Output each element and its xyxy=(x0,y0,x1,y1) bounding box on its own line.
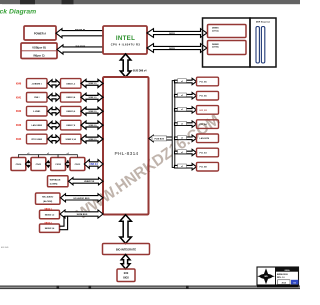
wire USB/IM to CPU xyxy=(57,45,103,54)
label SATA 1 xyxy=(44,208,52,211)
svg-text:USB PWR: USB PWR xyxy=(75,46,86,48)
bus DDR3 channel A xyxy=(147,29,207,38)
bus DMI CPU to PCH xyxy=(120,54,130,77)
svg-text:x1: x1 xyxy=(181,95,183,97)
svg-text:X044: X044 xyxy=(16,138,22,141)
svg-text:MIC AUDIO: MIC AUDIO xyxy=(42,196,53,199)
bus BIO to EXE BIOS xyxy=(121,255,130,270)
svg-text:REV: 1.0: REV: 1.0 xyxy=(277,277,285,279)
label USB 2.0 row4 xyxy=(89,125,98,127)
svg-text:x1: x1 xyxy=(181,152,183,154)
label x1 branch4 xyxy=(178,121,187,125)
svg-text:A03 0040: A03 0040 xyxy=(1,246,8,249)
bus USB 3.0 row2 to PCH xyxy=(81,93,103,101)
slot PCI_E6 xyxy=(197,77,219,86)
svg-text:DDR3: DDR3 xyxy=(169,48,176,50)
DIMM slot 1 xyxy=(256,27,259,64)
connector J-KB/MS 1 xyxy=(27,79,48,89)
bus PCIE riser xyxy=(172,81,175,168)
label x1 branch6 xyxy=(178,150,187,154)
connector CN12 xyxy=(51,158,66,171)
connector CN10 xyxy=(11,158,26,171)
svg-text:PCIE BUS: PCIE BUS xyxy=(154,139,164,141)
title block model text xyxy=(277,274,288,279)
svg-text:(ALC892): (ALC892) xyxy=(43,200,52,203)
svg-text:HD AUDIO BUS: HD AUDIO BUS xyxy=(74,197,91,200)
label X042 row3 xyxy=(16,110,22,113)
svg-text:KB/MS IN: KB/MS IN xyxy=(75,30,86,32)
svg-text:x1: x1 xyxy=(181,138,183,140)
svg-text:USB 2.0: USB 2.0 xyxy=(89,125,98,127)
module BIO SYSTEM xyxy=(103,244,150,255)
slot PCI_E4 xyxy=(197,120,219,129)
svg-text:(CH B): (CH B) xyxy=(212,47,219,49)
slot LAN BCM xyxy=(197,134,219,143)
wire CN8 I to USB3 3,4 xyxy=(48,94,60,101)
wire branch to LAN BCM xyxy=(175,135,197,141)
svg-text:USB 2.0: USB 2.0 xyxy=(89,111,98,113)
DIMM1 module xyxy=(208,25,247,38)
connector CN11 xyxy=(31,158,46,171)
label USB 3.0 blue xyxy=(89,164,98,166)
svg-text:BUS DMI x4: BUS DMI x4 xyxy=(133,69,147,72)
svg-text:x1: x1 xyxy=(181,123,183,125)
title block date cell xyxy=(278,280,291,285)
svg-text:WIFI/BLUE: WIFI/BLUE xyxy=(50,179,61,181)
svg-text:ck Diagram: ck Diagram xyxy=(0,9,36,16)
svg-text:IM(por C): IM(por C) xyxy=(34,54,45,57)
svg-text:PCI_E3: PCI_E3 xyxy=(200,152,208,154)
svg-text:DDR3: DDR3 xyxy=(169,33,176,35)
bus CN13 to PCH USB3.0 xyxy=(84,160,103,169)
label X040 row1 xyxy=(16,82,22,85)
label USB 3.0 row2 xyxy=(89,97,98,99)
connector SATA3 3,4 xyxy=(40,224,60,232)
label x1 branch2 xyxy=(178,93,187,97)
title block name bar xyxy=(276,268,298,272)
bus USB 2.0 row4 to PCH xyxy=(81,121,103,129)
svg-text:POWER A: POWER A xyxy=(34,31,46,35)
connector POWER A xyxy=(24,26,56,40)
svg-text:PCI_E8: PCI_E8 xyxy=(200,167,208,169)
label x1 branch5 xyxy=(178,136,187,140)
svg-text:B85M-DS3H: B85M-DS3H xyxy=(277,274,288,276)
label X044 row5 xyxy=(16,138,22,141)
watermark WWW diagonal xyxy=(74,111,223,223)
wire J-USB1 to USB2 5,6 xyxy=(48,108,60,115)
svg-text:x1: x1 xyxy=(181,81,183,83)
label SATA 2 xyxy=(44,221,52,224)
svg-text:X043: X043 xyxy=(16,124,22,127)
wire J-KB/MS 1 to USB3 1,2 xyxy=(48,80,60,87)
title block page cell blue xyxy=(291,280,299,285)
connector CN8 I xyxy=(27,93,48,103)
wire branch to PCI_E6 xyxy=(175,78,197,84)
label USB 3.0 row1 xyxy=(89,83,98,85)
label DDR3 A xyxy=(169,33,176,35)
hub USB2 5,6 xyxy=(61,106,82,116)
svg-text:USB 2.0: USB 2.0 xyxy=(89,139,98,141)
title block frame xyxy=(257,267,299,285)
svg-text:USB3 1,2: USB3 1,2 xyxy=(66,83,76,85)
label x1 branch3 xyxy=(178,107,187,111)
svg-text:LAN BCM: LAN BCM xyxy=(200,137,210,140)
label x1 branch1 xyxy=(178,79,187,83)
label USB PWR xyxy=(75,46,86,48)
label SATA BUS xyxy=(77,213,88,216)
wire IPX1 USB3 to USB2 9,14 xyxy=(48,135,60,142)
svg-text:IPX1 USB3: IPX1 USB3 xyxy=(31,139,42,141)
wire CN11 to CN12 xyxy=(46,161,52,167)
label x1 branch7 xyxy=(178,164,187,168)
label USB 2.0 row5 xyxy=(89,139,98,141)
wire LAN USB2 to USB2 7,8 xyxy=(48,121,60,128)
connector J-USB1 xyxy=(27,106,48,116)
svg-text:CN12: CN12 xyxy=(55,164,61,166)
label X041 row2 xyxy=(16,96,22,99)
svg-text:HCI_E2: HCI_E2 xyxy=(200,110,208,112)
slot PCI_E5 xyxy=(197,91,219,100)
wire branch to PCI_E3 xyxy=(175,149,197,155)
wire branch to HCI_E2 xyxy=(175,107,197,113)
svg-text:DIMM1: DIMM1 xyxy=(212,28,220,30)
chip EXE BIOS xyxy=(117,269,135,282)
wire branch to PCI_E8 xyxy=(175,164,197,170)
DIMM slot 2 xyxy=(261,27,264,64)
svg-text:EXE: EXE xyxy=(124,273,129,275)
svg-text:USB 3.0: USB 3.0 xyxy=(89,83,98,85)
svg-text:WD: WD xyxy=(264,276,268,278)
hub USB3 1,2 xyxy=(61,79,82,89)
hub USB3 3,4 xyxy=(61,93,82,103)
memory bank enclosure xyxy=(203,18,251,67)
svg-text:PHL-8314: PHL-8314 xyxy=(115,151,139,157)
svg-text:X040: X040 xyxy=(16,82,22,85)
svg-text:J-KB/MS 1: J-KB/MS 1 xyxy=(32,83,43,85)
hub USB2 7,8 xyxy=(61,120,82,130)
svg-text:J-USB1: J-USB1 xyxy=(33,111,41,113)
label X043 row4 xyxy=(16,124,22,127)
CPU U1 INTEL xyxy=(103,26,147,54)
left margin xyxy=(0,4,2,300)
svg-text:PCI_E4: PCI_E4 xyxy=(200,123,208,126)
connector CN13 xyxy=(70,158,85,171)
bus USB 2.0 row3 to PCH xyxy=(81,107,103,115)
svg-text:CPU 4 IL6547U R3: CPU 4 IL6547U R3 xyxy=(111,42,141,46)
svg-text:LAN USB2: LAN USB2 xyxy=(31,124,42,127)
svg-text:USB(por B): USB(por B) xyxy=(32,46,46,49)
svg-text:CN8 I: CN8 I xyxy=(34,97,40,99)
wire SATA3 3,4 elbow to SATA bus xyxy=(60,216,68,230)
svg-text:(CONN): (CONN) xyxy=(50,184,58,186)
svg-text:USB3 3,4: USB3 3,4 xyxy=(66,96,76,99)
svg-text:SATA3 1,2: SATA3 1,2 xyxy=(45,213,55,216)
svg-text:SATA3 3,4: SATA3 3,4 xyxy=(45,227,55,230)
label DDR3 B xyxy=(169,48,176,50)
label USB 2.0 row3 xyxy=(89,111,98,113)
svg-text:x1: x1 xyxy=(181,109,183,111)
label USB/PCIE xyxy=(84,181,95,183)
svg-text:PCI_E5: PCI_E5 xyxy=(200,96,208,98)
bus WIFI to PCH xyxy=(69,178,104,185)
note revision tiny xyxy=(1,246,8,249)
svg-text:DDR Sequence: DDR Sequence xyxy=(256,22,271,24)
label PCIE BUS xyxy=(152,136,167,141)
top toolbar bar xyxy=(0,0,300,4)
bus USB 3.0 row1 to PCH xyxy=(81,79,103,87)
logo star emblem xyxy=(257,268,275,284)
svg-text:BIOS: BIOS xyxy=(123,278,129,280)
wire POWER to CPU xyxy=(56,29,103,38)
wire CN12 to CN13 xyxy=(65,161,70,167)
connector USB/IM dual port xyxy=(21,43,57,59)
DIMM2 module xyxy=(208,41,247,55)
codec MIC AUDIO ALC892 xyxy=(36,193,61,204)
svg-text:PCI_E6: PCI_E6 xyxy=(200,81,208,83)
svg-text:X042: X042 xyxy=(16,110,22,113)
wire branch to PCI_E5 xyxy=(175,93,197,99)
slot PCI_E8 xyxy=(197,162,219,171)
svg-text:USB 3.0: USB 3.0 xyxy=(89,97,98,99)
svg-text:USB2 9,14: USB2 9,14 xyxy=(66,138,77,141)
slot PCI_E3 xyxy=(197,148,219,157)
jumper bracket 1 xyxy=(18,153,38,157)
slot HCI_E2 xyxy=(197,106,219,115)
svg-text:DIMM2: DIMM2 xyxy=(212,44,220,46)
svg-text:USB2 5,6: USB2 5,6 xyxy=(66,111,76,113)
svg-text:CN10: CN10 xyxy=(16,164,22,166)
label KB/MS IN xyxy=(75,30,86,32)
frame bottom border line xyxy=(0,286,300,290)
title text Block Diagram xyxy=(0,9,36,16)
bus USB 2.0 row5 to PCH xyxy=(81,135,103,143)
svg-text:USB 3.0: USB 3.0 xyxy=(89,164,98,166)
connector LAN USB2 xyxy=(27,120,48,130)
connector IPX1 USB3 xyxy=(27,134,48,144)
bus HD AUDIO to PCH xyxy=(61,194,104,202)
title block bottom bar xyxy=(257,285,299,288)
wire CN10 to CN11 xyxy=(26,161,32,167)
svg-text:USB/PCIE: USB/PCIE xyxy=(84,181,95,183)
svg-text:GIGA: GIGA xyxy=(284,269,290,272)
DDR sequence enclosure xyxy=(250,18,276,67)
PCH U2 PHL-8314 xyxy=(103,77,149,215)
jumper bracket 3 xyxy=(58,153,77,157)
wire branch to PCI_E4 xyxy=(175,121,197,127)
bus DDR3 channel B xyxy=(147,44,207,53)
jumper bracket 2 xyxy=(38,153,58,157)
svg-text:BIO INTEGRATE: BIO INTEGRATE xyxy=(116,247,136,251)
svg-text:USB2 7,8: USB2 7,8 xyxy=(66,125,76,127)
label BUS DMI x4 xyxy=(133,69,147,72)
svg-text:SATA BUS: SATA BUS xyxy=(77,213,88,216)
svg-text:X041: X041 xyxy=(16,96,22,99)
svg-text:x1: x1 xyxy=(181,166,183,168)
module WIFI/BT xyxy=(48,176,69,187)
svg-text:CN11: CN11 xyxy=(36,164,42,166)
bus SATA to PCH xyxy=(60,210,103,218)
label HD AUDIO BUS xyxy=(74,197,91,200)
svg-text:1/1: 1/1 xyxy=(293,282,296,284)
svg-text:CN13: CN13 xyxy=(75,164,81,166)
bus PCH to BIO xyxy=(120,215,132,244)
bus PCIE PCH to slots xyxy=(149,135,173,142)
connector SATA3 1,2 xyxy=(40,210,60,218)
svg-text:INTEL: INTEL xyxy=(116,35,135,42)
svg-text:(CH A): (CH A) xyxy=(212,29,219,32)
hub USB2 9,14 xyxy=(61,134,82,144)
